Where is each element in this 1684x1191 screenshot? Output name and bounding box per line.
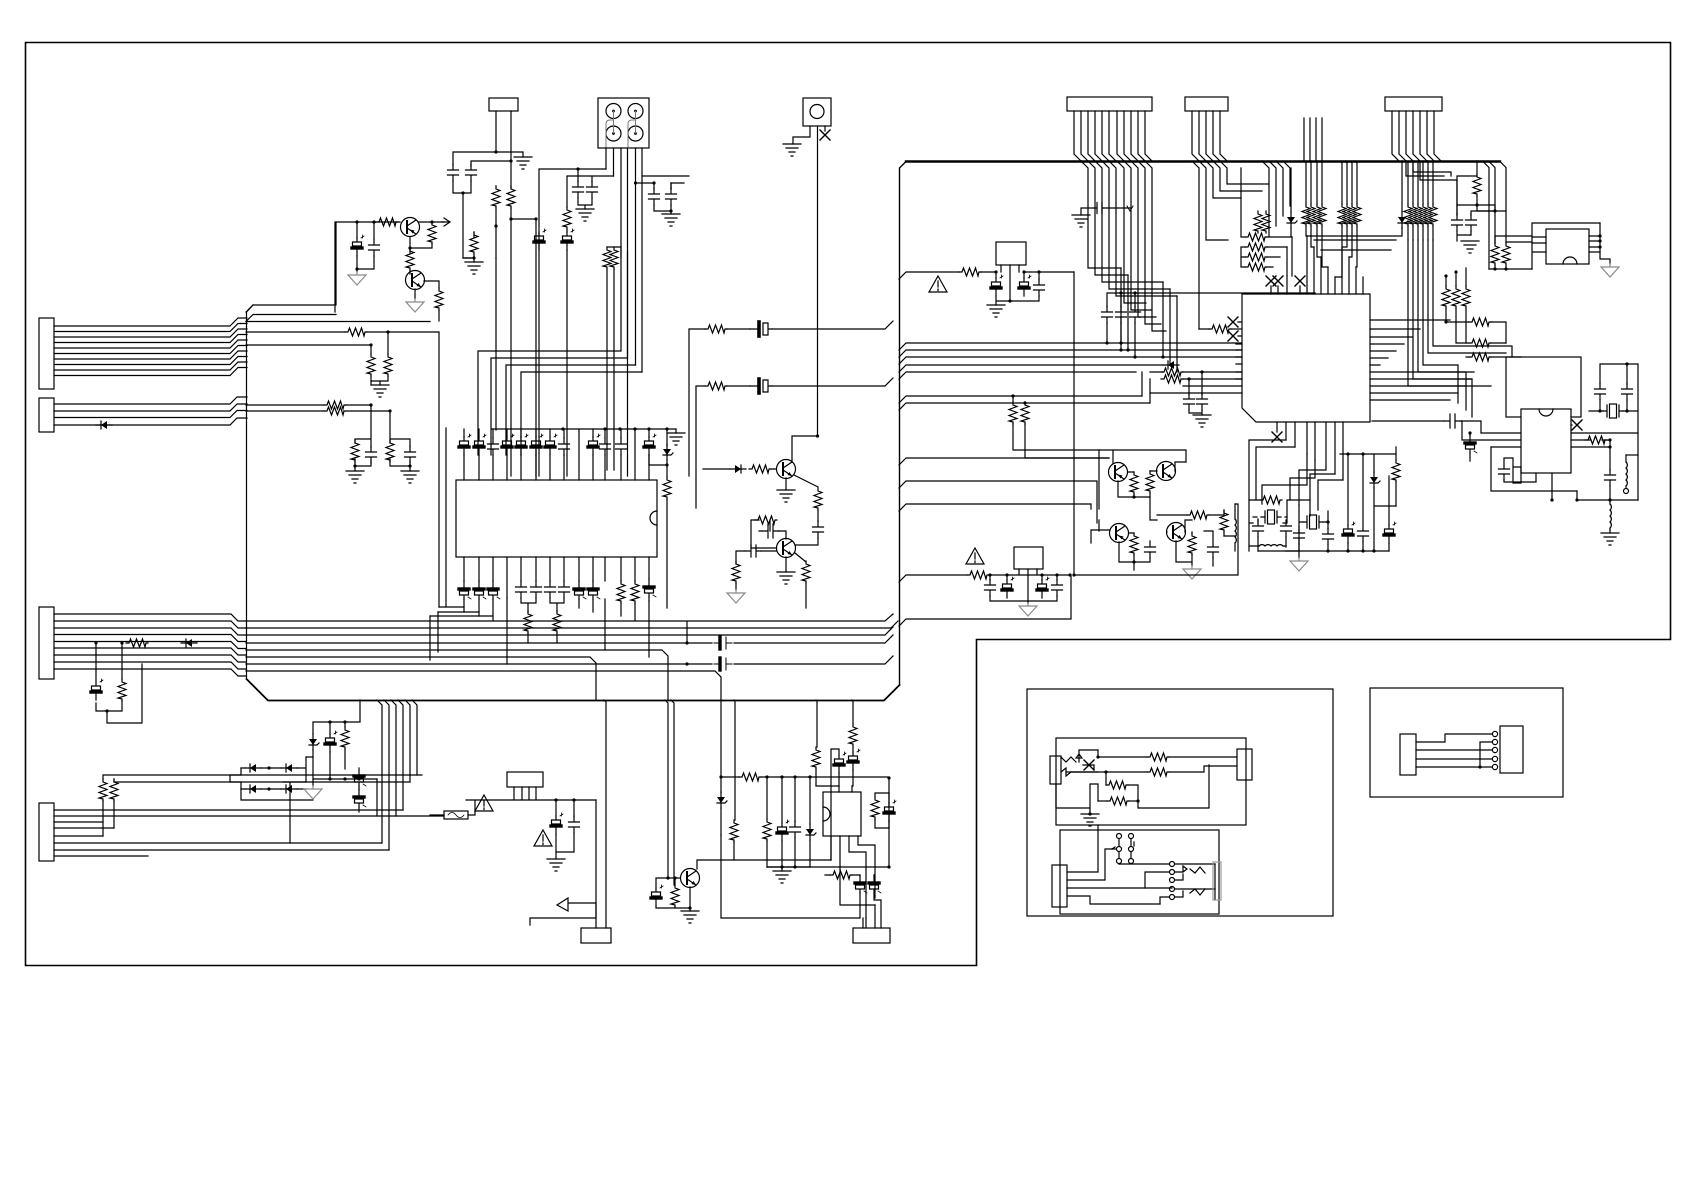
- resistor R102: [110, 779, 118, 801]
- connector T0 top: [489, 98, 518, 111]
- capacitor C85 electrolytic: [651, 885, 663, 906]
- transistor Q3: [777, 460, 796, 479]
- U1 bottom cap row: [459, 581, 471, 599]
- resistor R101: [99, 779, 107, 801]
- U5 top pins: [816, 700, 853, 792]
- resistor R11: [666, 465, 668, 477]
- resistor R14: [524, 611, 532, 633]
- verticals from shield bottom to power cluster: [377, 700, 417, 850]
- resistor R1: [376, 218, 398, 226]
- resistor R15: [345, 328, 367, 336]
- warning triangle 2: [534, 830, 552, 846]
- box B wires: [1416, 734, 1492, 767]
- long verticals from T0 region down: [496, 219, 536, 476]
- ground arrow crystal: [1290, 558, 1308, 571]
- transistor Q2: [406, 271, 425, 290]
- capacitor C60: [1253, 520, 1264, 537]
- coil L4 to ground: [1609, 500, 1611, 504]
- connector J11 right: [1237, 749, 1252, 780]
- capacitor C82 electrolytic: [354, 789, 366, 807]
- capacitor C87: [794, 777, 796, 822]
- rails nodes: [1493, 209, 1496, 212]
- lower pair wiring: [1091, 520, 1134, 543]
- resistor R23: [795, 553, 806, 562]
- connector J12: [1052, 865, 1067, 907]
- box A inner frame bottom: [1060, 830, 1219, 914]
- long verticals to pad P2: [596, 700, 606, 928]
- capacitor C61: [1281, 520, 1292, 537]
- capacitor C8 electrolytic: [534, 229, 546, 250]
- electrolytic cap C: [91, 679, 103, 700]
- resistor R51: [1146, 471, 1154, 493]
- resistor R17: [370, 345, 372, 354]
- capacitor C5: [573, 181, 584, 198]
- inner loop U4: [1491, 447, 1577, 491]
- resistor R91: [1105, 772, 1107, 785]
- connector J4 four-circle: [598, 98, 649, 148]
- resistor R15: [553, 611, 561, 633]
- regulator X1 3-pin box: [996, 242, 1026, 265]
- inline cap CB: [750, 379, 772, 393]
- zener diode DZ2: [313, 700, 360, 734]
- ground GND J5: [783, 144, 801, 156]
- capacitor C9: [649, 188, 660, 205]
- mid rail power: [313, 779, 377, 786]
- X mark J10: [1084, 760, 1094, 770]
- connector CN3 left: [39, 607, 54, 679]
- wire row A with inline cap: [689, 321, 893, 476]
- resistor bank RC: [1340, 161, 1357, 204]
- stair wires upper mid: [1307, 228, 1402, 250]
- capacitor C81 electrolytic: [354, 768, 366, 786]
- resistor R83: [766, 777, 768, 819]
- resistor R52: [1130, 533, 1138, 555]
- ground GND boxA: [1081, 814, 1099, 826]
- wire bundle CN4: [54, 810, 444, 856]
- wire below X2: [899, 575, 1071, 626]
- U1 bottom routing: [464, 597, 649, 620]
- wire row2 boxA: [1066, 766, 1237, 772]
- ground GND: [662, 214, 680, 226]
- capacitor C2: [369, 239, 380, 256]
- zener D81: [720, 700, 722, 793]
- capacitor C32: [1038, 272, 1040, 280]
- return arrow: [530, 903, 596, 925]
- resistor R4: [424, 281, 439, 288]
- U2 bottom pin stubs: [1277, 422, 1343, 480]
- DIP IC U1: [456, 480, 657, 557]
- capacitor C70 electrolytic: [1465, 435, 1477, 453]
- ground GND cluster1: [346, 471, 364, 483]
- resistor bank RD: [1408, 161, 1433, 204]
- resistor R20: [749, 465, 771, 473]
- shield-end rails down: [1483, 162, 1506, 270]
- resistor R41 top right: [1476, 161, 1478, 174]
- verticals from shield mid: [665, 700, 674, 885]
- ground GND Q9: [681, 911, 699, 923]
- capacitor C62: [1294, 527, 1305, 544]
- resistor R19: [324, 407, 346, 415]
- vertical wires T1 below shield: [1081, 161, 1177, 296]
- bottom rail power2: [767, 867, 810, 871]
- caps top right C40 C41: [1457, 205, 1495, 215]
- cap to ground top shield: [1081, 208, 1097, 215]
- wire y421 with inline cap: [1372, 420, 1444, 422]
- resistor R21: [794, 475, 818, 487]
- ground GND rail: [667, 433, 685, 445]
- diode bridge row2: [241, 788, 306, 790]
- pad P1: [507, 772, 543, 787]
- transistor Q7: [1110, 524, 1129, 543]
- ground arrow Q4: [727, 590, 745, 603]
- transistor Q8: [1167, 523, 1186, 542]
- long bus lines center: [246, 614, 898, 700]
- capacitor C83 electrolytic: [555, 800, 557, 816]
- resistor R55: [1220, 510, 1228, 532]
- crystal Y3: [1600, 364, 1627, 384]
- wire branch C: [246, 405, 390, 411]
- capacitor C37 electrolytic: [1006, 575, 1008, 580]
- resistor R8: [563, 207, 571, 229]
- resistor R22: [732, 561, 740, 583]
- box A outline: [1027, 689, 1333, 916]
- box B outline: [1370, 688, 1563, 797]
- Q4 base feedback loop: [751, 520, 776, 548]
- resistor R18: [324, 401, 346, 409]
- J4 subcircuit wires: [539, 169, 614, 476]
- capacitor C86 electrolytic: [781, 777, 783, 823]
- ground GND L4: [1601, 533, 1619, 545]
- warning triangle: [929, 276, 947, 292]
- resistor R53: [1188, 533, 1196, 555]
- 4 h-resistors left of U2: [1241, 168, 1245, 267]
- capacitor C89 electrolytic: [848, 749, 860, 770]
- transistor Q5: [1109, 463, 1128, 482]
- pad P2: [581, 928, 611, 943]
- diode D on CN3 wire: [181, 639, 197, 647]
- resistor R31: [1161, 368, 1183, 376]
- T2 pin bundle: [1192, 111, 1227, 161]
- open arrow out: [442, 218, 450, 226]
- bus wires right of shield: [899, 343, 1242, 410]
- IC U2 QFP: [1242, 294, 1370, 422]
- resistor R92: [1098, 800, 1107, 802]
- right resistor trio: [1446, 268, 1466, 286]
- warning triangle: [966, 548, 984, 564]
- crystal Y2: [1303, 515, 1323, 529]
- U3 right pins: [1589, 223, 1600, 252]
- bottom rail crystal: [1286, 550, 1389, 552]
- resistor R32: [1161, 375, 1183, 383]
- ground arrow U3: [1601, 264, 1619, 277]
- diode DA: [1290, 168, 1292, 212]
- capacitor C3 C4 loop top-left: [453, 152, 511, 166]
- zener diode DZ1: [666, 429, 668, 446]
- vertical wires T2 below shield: [1192, 161, 1269, 329]
- rail y777: [739, 773, 761, 781]
- U1 top cap row: [459, 434, 471, 455]
- capacitor C51: [1208, 541, 1219, 558]
- tap caps below CN3 wire: [96, 643, 142, 723]
- resistor R5: [492, 186, 500, 208]
- stair bundle RD to U4 loop: [1408, 240, 1512, 417]
- diode D30: [1163, 361, 1179, 369]
- J12 wires: [1067, 825, 1112, 880]
- T1 pin bundle: [1074, 111, 1152, 161]
- resistor R54 h: [1187, 511, 1209, 519]
- ground GND R17: [371, 385, 389, 397]
- capacitor C39: [1056, 575, 1058, 580]
- diode bridge row1: [241, 757, 306, 782]
- ground arrow X2: [1019, 603, 1037, 616]
- resistor R80: [344, 722, 346, 727]
- resistors R33 R34 below bus: [1011, 394, 1014, 397]
- coil L2: [1259, 545, 1283, 546]
- U1 top rail: [464, 429, 649, 438]
- RC cluster 2: [390, 411, 410, 471]
- transistor Q1 top-left: [401, 218, 420, 237]
- capacitor C7 electrolytic: [562, 229, 574, 250]
- connector J10: [1050, 756, 1061, 784]
- resistor bank RA: [1254, 211, 1262, 233]
- U2 right pin wires: [1370, 320, 1474, 400]
- Q9 wiring: [656, 860, 831, 911]
- U2 left pin wires lower: [1150, 344, 1242, 393]
- transistor Q4: [777, 539, 796, 558]
- P1 pins: [430, 787, 596, 815]
- resistor R2: [428, 222, 436, 244]
- loop around U4: [1506, 357, 1581, 417]
- ground GND cluster2: [401, 471, 419, 483]
- IC U3 small right: [1546, 229, 1589, 264]
- ground arrow right: [1306, 298, 1324, 311]
- stair bundle QFP bottom to crystal block: [1249, 440, 1343, 516]
- capacitor C6: [587, 181, 598, 198]
- sheet border: [26, 43, 1671, 966]
- ground arrow quad: [1183, 566, 1201, 579]
- resistor R30: [959, 268, 981, 276]
- U2 top pin stubs: [1271, 236, 1363, 294]
- wire bundle CN2 to bus: [54, 397, 247, 425]
- X marks QFP left: [1228, 317, 1238, 327]
- nested routing left of U1: [430, 428, 493, 616]
- coil L3: [1626, 462, 1627, 486]
- resistor R10: [610, 247, 618, 269]
- resistor R61: [1392, 460, 1400, 482]
- X mark U4: [1572, 420, 1582, 430]
- resistor rows above U2: [1262, 161, 1290, 236]
- wire row B with inline cap: [696, 378, 893, 508]
- resistor R85b: [830, 871, 852, 879]
- U5 bottom pins: [831, 836, 875, 918]
- ground GND C43: [1193, 415, 1211, 427]
- elcap row: [1343, 522, 1355, 543]
- capacitor C38 electrolytic: [1041, 575, 1043, 580]
- ground GND P1: [547, 859, 565, 871]
- resistor R12: [617, 581, 625, 603]
- resistor R82: [734, 700, 735, 820]
- bottom rail U4: [1577, 491, 1638, 500]
- resistor bank RB: [1306, 161, 1322, 204]
- wire bundle CN3 to bus: [54, 614, 246, 676]
- regulator X2 3-pin box: [1014, 547, 1043, 569]
- bus vertical line left: [247, 305, 254, 679]
- connector T3 top: [1385, 97, 1442, 111]
- resistor R35: [967, 571, 989, 579]
- diode D on CN2 wire: [96, 421, 112, 429]
- capacitor trio C33 C34 C35: [1107, 293, 1315, 307]
- capacitor C1 electrolytic: [352, 235, 364, 256]
- resistor R: [118, 679, 126, 701]
- resistor R50: [1130, 472, 1138, 494]
- jack symbols: [1175, 864, 1215, 897]
- capacitor C10: [666, 188, 677, 205]
- IC U4: [1521, 409, 1571, 473]
- capacitor C88 electrolytic: [834, 752, 846, 773]
- jack contacts: [1170, 862, 1175, 867]
- ground GND: [465, 262, 483, 274]
- wire to X1: [899, 265, 1074, 301]
- capacitor C92 electrolytic: [884, 800, 896, 821]
- warning triangle P1: [475, 795, 493, 811]
- diode D3 mid: [703, 468, 730, 470]
- transistor Q6: [1157, 462, 1176, 481]
- U4 right wires: [1571, 433, 1638, 447]
- ground arrow Q2: [414, 289, 416, 299]
- ground arrow power: [304, 786, 322, 799]
- capacitor C72: [1499, 463, 1510, 480]
- resistor R6: [507, 186, 515, 208]
- caps C90 C91 electrolytic: [767, 778, 889, 867]
- X marks U2 top: [1266, 276, 1276, 286]
- J5 pins: [793, 126, 825, 436]
- resistor R7: [470, 232, 478, 254]
- capacitor C80 electrolytic: [329, 722, 331, 734]
- shield outline left edge: [900, 162, 907, 686]
- capacitor C20: [813, 521, 824, 538]
- resistor R43: [1502, 243, 1510, 265]
- transistor Q9: [681, 869, 700, 888]
- vertical feed X1: [1073, 272, 1075, 575]
- inline cap C21: [745, 545, 761, 557]
- T0 pins: [496, 111, 523, 188]
- box A inner frame top: [1056, 738, 1246, 825]
- resistor R9: [603, 247, 611, 269]
- connector J13: [1400, 734, 1416, 775]
- resistor R85: [849, 724, 857, 746]
- wire Q1 rail: [335, 222, 444, 312]
- IC U5: [823, 792, 861, 836]
- resistor R on CN3 wire: [126, 639, 148, 647]
- switch SW1: [1112, 834, 1134, 864]
- wires J4 right pins: [636, 176, 690, 189]
- capacitor C63: [1323, 528, 1334, 545]
- diode DB: [1401, 161, 1403, 212]
- wire bundle mid top: [1304, 118, 1322, 161]
- inline cap CA: [750, 322, 772, 336]
- T3 pin bundle: [1392, 111, 1441, 161]
- ground GND Q3: [777, 490, 795, 502]
- capacitor C71: [1605, 469, 1616, 486]
- shield outline top edge: [906, 160, 1500, 162]
- resistor R42: [1491, 243, 1499, 265]
- resistor R60: [1260, 496, 1282, 504]
- bus rows with inline caps mid: [246, 635, 893, 643]
- fuse F1: [444, 811, 468, 819]
- U1 top pins: [464, 429, 649, 480]
- U1 bottom pins: [464, 557, 649, 598]
- X no-connect: [820, 130, 830, 140]
- connector CN1 left: [39, 318, 54, 389]
- caps C42 C43 left of U2: [1189, 372, 1202, 395]
- resistor R90: [1147, 753, 1169, 761]
- connector CN2 left: [39, 398, 54, 432]
- resistor R16: [387, 332, 389, 354]
- resistor R13: [631, 581, 639, 603]
- capacitor C30 electrolytic: [995, 272, 997, 278]
- connector J5 circle jack: [803, 98, 831, 126]
- wire bus branch B: [246, 322, 439, 608]
- wire to X2: [899, 569, 1070, 603]
- pot symbol J10: [1061, 750, 1098, 762]
- capacitor C84: [573, 800, 575, 817]
- capacitor C50: [1145, 541, 1156, 558]
- h resistors to right block: [1446, 321, 1469, 323]
- connector T1 top: [1067, 97, 1152, 111]
- shield outline bottom edge: [247, 679, 900, 701]
- capacitor C31 electrolytic: [1023, 272, 1025, 278]
- connector CN4 left: [39, 803, 54, 861]
- ground GND C40: [1461, 241, 1479, 253]
- wire bus top branch A: [246, 222, 336, 312]
- zener D82: [809, 777, 811, 824]
- resistor R40: [1209, 325, 1231, 333]
- ground GND X1: [987, 305, 1005, 317]
- pad P3: [853, 928, 890, 943]
- quad block wiring: [1099, 450, 1186, 509]
- RC cluster 1: [355, 405, 371, 471]
- U3 left pins: [1532, 223, 1600, 269]
- diode D60: [1370, 472, 1380, 488]
- resistor R3: [406, 248, 414, 270]
- coil L1: [1235, 519, 1236, 543]
- ground arrow: [348, 272, 366, 285]
- J4 pin wires down: [478, 148, 642, 455]
- connector J14: [1500, 726, 1523, 773]
- crystal block enclosure: [1249, 500, 1310, 551]
- resistor R81: [671, 885, 679, 907]
- ground GND: [576, 209, 594, 221]
- crystal Y1: [1261, 510, 1281, 524]
- connector T2 top: [1185, 97, 1228, 111]
- ground GND power2: [773, 871, 791, 883]
- wire bundle CN1 to bus: [54, 318, 247, 376]
- capacitor C36: [989, 575, 991, 580]
- resistor R84: [812, 747, 820, 769]
- resistor R86: [871, 797, 879, 819]
